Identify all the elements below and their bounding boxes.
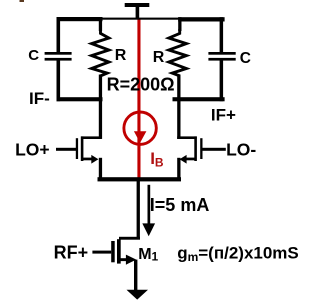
svg-text:LO+: LO+	[15, 140, 50, 160]
svg-text:C: C	[28, 47, 39, 64]
svg-text:IF-: IF-	[29, 89, 50, 108]
svg-text:R: R	[115, 47, 127, 64]
svg-text:IF+: IF+	[211, 105, 236, 124]
svg-text:LO-: LO-	[226, 140, 256, 160]
svg-text:C: C	[240, 50, 251, 67]
svg-text:R=200Ω: R=200Ω	[107, 75, 175, 95]
svg-text:M1: M1	[138, 246, 158, 263]
svg-text:RF+: RF+	[54, 242, 89, 262]
svg-text:R: R	[153, 49, 165, 66]
svg-text:I=5 mA: I=5 mA	[150, 195, 210, 215]
